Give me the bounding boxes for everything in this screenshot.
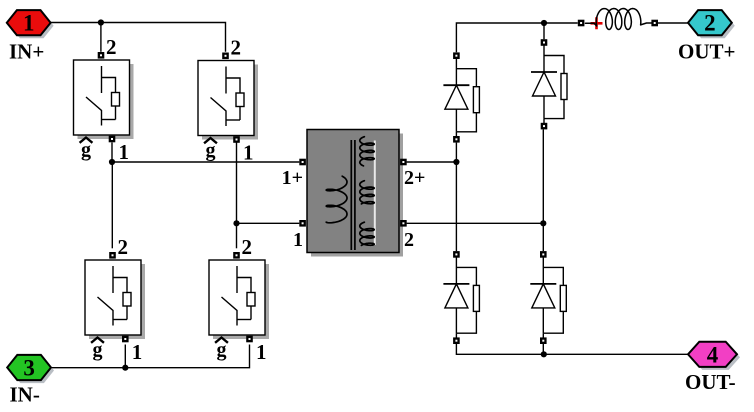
svg-text:g: g — [206, 140, 216, 162]
svg-text:2: 2 — [106, 35, 117, 59]
svg-text:OUT-: OUT- — [685, 370, 736, 394]
inductor L1 right terminal marker — [651, 20, 658, 27]
svg-text:3: 3 — [23, 356, 35, 381]
diode D3 cathode marker — [453, 337, 460, 344]
svg-text:IN-: IN- — [10, 383, 40, 407]
junction IN- at switch S3 branch — [122, 365, 128, 371]
wire node B horizontal to transformer 1 — [237, 222, 300, 224]
diode D2 (diode with parallel RC snubber) — [531, 46, 567, 124]
inductor L1 left terminal marker — [578, 20, 585, 27]
svg-text:2: 2 — [118, 235, 129, 259]
diode D2 anode marker — [541, 39, 548, 46]
wire node A horizontal to transformer 1+ — [112, 161, 299, 163]
wire IN+ bus from port 1 to switch S2 — [51, 23, 226, 52]
switch S4 pin 2 marker — [233, 252, 240, 259]
switch S2 pin 2 marker — [222, 53, 229, 60]
svg-text:1: 1 — [119, 140, 130, 164]
wire node B down to switch S4 pin2 — [236, 223, 238, 248]
svg-text:IN+: IN+ — [9, 40, 44, 64]
junction node D — [540, 220, 546, 226]
wire node A down to switch S3 pin2 — [111, 162, 113, 248]
wire inductor to port 2 — [658, 22, 688, 24]
inductor L1 polarity plus — [591, 17, 603, 29]
switch S3 (ideal switch block) — [85, 260, 145, 339]
switch S1 gate port arrow — [81, 138, 92, 143]
transformer T1 port 1 marker — [299, 220, 306, 227]
inductor L1 coil — [586, 9, 652, 30]
diode D2 cathode marker — [541, 123, 548, 130]
wire IN- bus from port 3 to switch S4 — [52, 345, 250, 368]
switch S1 pin 1 marker — [109, 136, 116, 143]
svg-text:1: 1 — [243, 141, 254, 165]
switch S2 gate port arrow — [205, 138, 216, 143]
svg-text:1: 1 — [132, 340, 143, 364]
wire switch S1 pin1 to node A — [111, 143, 113, 163]
transformer T1 port 2+ marker — [400, 159, 407, 166]
svg-text:1+: 1+ — [282, 167, 303, 189]
wire rectifier left leg (D1 to D3) — [455, 143, 457, 252]
wire OUT+ branch down to diode D2 — [543, 23, 545, 39]
diode D4 cathode marker — [540, 337, 547, 344]
wire diode D3 down to OUT- bus — [456, 344, 688, 354]
wire IN+ branch down to switch S1 — [100, 23, 102, 52]
wire IN- branch up to switch S3 — [124, 345, 126, 368]
wire OUT+ bus from diode D1 up and right to inductor — [456, 23, 577, 52]
switch S1 pin 2 marker — [98, 52, 105, 59]
svg-text:g: g — [217, 339, 227, 361]
switch S3 pin 1 marker — [122, 336, 129, 343]
wire switch S2 pin1 to node B — [236, 143, 238, 224]
switch S4 pin 1 marker — [246, 336, 253, 343]
transformer T1 port 1+ marker — [299, 159, 306, 166]
switch S3 pin 2 marker — [109, 252, 116, 259]
transformer T1 (linear transformer block) — [307, 130, 403, 257]
port Conn1 (input +) — [7, 10, 54, 38]
switch S2 (ideal switch block) — [198, 61, 258, 140]
svg-text:2: 2 — [242, 235, 253, 259]
svg-text:g: g — [81, 139, 91, 161]
svg-text:1: 1 — [256, 340, 267, 364]
switch S4 gate port arrow — [216, 338, 227, 343]
diode D1 anode marker — [453, 52, 460, 59]
svg-text:2: 2 — [404, 229, 414, 251]
diode D1 (diode with parallel RC snubber) — [443, 59, 479, 137]
port Conn2 (output +) — [688, 10, 735, 38]
switch S4 (ideal switch block) — [209, 260, 269, 339]
switch S1 (ideal switch block) — [74, 60, 134, 139]
svg-text:OUT+: OUT+ — [678, 40, 735, 64]
port Conn3 (input -) — [7, 355, 54, 383]
svg-text:1: 1 — [23, 11, 35, 36]
diode D4 anode marker — [540, 251, 547, 258]
svg-text:1: 1 — [293, 229, 303, 251]
port Conn4 (output -) — [688, 342, 740, 370]
svg-text:2+: 2+ — [404, 167, 425, 189]
junction OUT- at diode D4 branch — [541, 351, 547, 357]
svg-text:g: g — [93, 339, 103, 361]
junction node A — [109, 159, 115, 165]
junction node C — [453, 159, 459, 165]
wire transformer 2+ to node C — [407, 161, 457, 163]
diode D3 (diode with parallel RC snubber) — [443, 257, 479, 337]
diode D1 cathode marker — [453, 136, 460, 143]
switch S3 gate port arrow — [92, 338, 103, 343]
wire transformer 2 to node D — [407, 222, 544, 224]
junction node B — [233, 220, 239, 226]
diode D4 (diode with parallel RC snubber) — [530, 257, 566, 337]
wire diode D4 down to OUT- bus — [542, 344, 544, 354]
svg-text:2: 2 — [704, 11, 716, 36]
diode D3 anode marker — [453, 251, 460, 258]
junction IN+ at switch S1 branch — [98, 19, 104, 25]
svg-text:2: 2 — [231, 36, 242, 60]
junction OUT+ at diode D2 branch — [541, 20, 547, 26]
switch S2 pin 1 marker — [233, 136, 240, 143]
svg-text:4: 4 — [707, 342, 719, 367]
wire rectifier right leg (D2 to D4) — [542, 129, 544, 251]
transformer T1 port 2 marker — [400, 220, 407, 227]
